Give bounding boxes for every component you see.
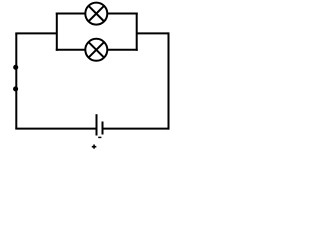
- wire right vertical: [168, 32, 170, 129]
- battery B1 positive plate: [96, 114, 98, 135]
- wire bottom-right horizontal: [103, 128, 169, 130]
- wire top-right horizontal: [137, 32, 169, 34]
- wire parallel-block left vertical: [56, 13, 58, 51]
- wire bottom branch left: [56, 49, 86, 51]
- battery plus label: [92, 145, 97, 149]
- wire parallel-block right vertical: [136, 13, 138, 51]
- battery minus label: [98, 136, 101, 138]
- node junction dot lower: [13, 86, 18, 91]
- lamp L2: [85, 39, 107, 61]
- wire top branch right: [107, 13, 138, 15]
- node junction dot upper: [13, 65, 18, 70]
- battery B1 negative plate: [102, 122, 104, 135]
- wire top-left horizontal: [15, 32, 57, 34]
- wire bottom-left horizontal: [15, 128, 95, 130]
- lamp L1: [85, 3, 107, 25]
- wire left vertical: [15, 33, 17, 128]
- wire top branch left: [56, 13, 86, 15]
- wire bottom branch right: [107, 49, 138, 51]
